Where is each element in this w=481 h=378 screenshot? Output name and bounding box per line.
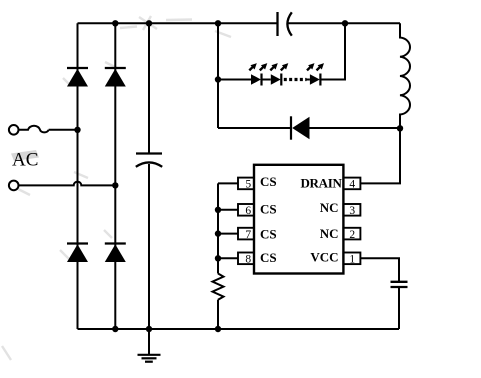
wire pin8 stub bbox=[218, 257, 238, 259]
svg-text:NC: NC bbox=[320, 226, 339, 241]
wire right bridge leg bbox=[114, 23, 116, 329]
node dot bottom rail at right leg bbox=[112, 326, 118, 332]
svg-text:5: 5 bbox=[245, 179, 251, 191]
LED LED3 bbox=[310, 74, 321, 86]
wire LED branch left vertical bbox=[217, 23, 219, 128]
capacitor C1 filter (polarized) bbox=[136, 154, 162, 167]
diode D4 lower-right bridge bbox=[105, 244, 126, 263]
wire pin1 VCC to cap bbox=[360, 258, 399, 281]
LED LED1 bbox=[251, 74, 262, 86]
node dot freewheel at inductor bbox=[397, 125, 403, 131]
svg-text:8: 8 bbox=[245, 254, 251, 266]
AC terminal lower bbox=[9, 181, 19, 191]
wire resistor to bottom rail bbox=[217, 300, 219, 329]
svg-text:1: 1 bbox=[349, 254, 355, 266]
node dot top rail at cap leg bbox=[146, 20, 152, 26]
wire dashed LED continuation bbox=[284, 78, 307, 81]
svg-text:3: 3 bbox=[349, 205, 355, 217]
svg-text:4: 4 bbox=[349, 179, 355, 191]
wire upper AC to left leg bbox=[49, 129, 78, 131]
wire bottom rail bbox=[78, 328, 400, 330]
LED arrows group 1 bbox=[249, 63, 267, 70]
wire VCC cap to bottom rail bbox=[398, 288, 400, 329]
LED arrows group 2 bbox=[270, 63, 288, 70]
pin 7 box bbox=[238, 228, 254, 240]
node dot CS pin8 bbox=[215, 255, 221, 261]
svg-text:CS: CS bbox=[260, 174, 277, 189]
wire drain from inductor node to pin 4 bbox=[360, 128, 400, 183]
wire freewheel row right bbox=[310, 127, 401, 129]
svg-text:7: 7 bbox=[245, 229, 251, 241]
svg-text:2: 2 bbox=[349, 229, 355, 241]
LED LED2 bbox=[271, 74, 282, 86]
node dot CS pin6 bbox=[215, 207, 221, 213]
wire freewheel row left bbox=[218, 127, 291, 129]
pin 4 box bbox=[343, 178, 360, 190]
wire LED row solid right bbox=[320, 23, 345, 79]
wire filter cap lower bbox=[148, 164, 150, 329]
LED arrows group 3 bbox=[307, 63, 324, 70]
svg-text:CS: CS bbox=[260, 250, 277, 265]
capacitor C3 VCC bbox=[391, 282, 408, 287]
diode D1 upper-left bridge bbox=[67, 68, 88, 87]
node dot top rail at LED return bbox=[342, 20, 348, 26]
node dot top rail at right leg bbox=[112, 20, 118, 26]
inductor L1 bbox=[400, 23, 410, 128]
wire lower AC with hop over left leg bbox=[19, 182, 116, 186]
ground bbox=[138, 355, 161, 362]
svg-text:CS: CS bbox=[260, 227, 277, 242]
wire top rail left segment bbox=[78, 22, 278, 24]
diode D2 upper-right bridge bbox=[105, 68, 126, 87]
node dot bottom rail at resistor leg bbox=[215, 326, 221, 332]
fuse squiggle bbox=[19, 126, 49, 133]
wire filter cap upper bbox=[148, 23, 150, 153]
wire ground stub bbox=[148, 329, 150, 354]
wire pin7 stub bbox=[218, 233, 238, 235]
svg-text:AC: AC bbox=[12, 150, 38, 171]
svg-text:DRAIN: DRAIN bbox=[300, 175, 342, 190]
wire LED dash to LED3 bbox=[306, 79, 310, 81]
wire CS common vertical bbox=[217, 183, 219, 273]
pin 2 box bbox=[343, 228, 360, 240]
pin 8 box bbox=[238, 253, 254, 265]
diode D3 lower-left bridge bbox=[67, 244, 88, 263]
pin 6 box bbox=[238, 204, 254, 216]
wire LED1 to LED2 bbox=[262, 79, 271, 81]
node junction upper AC bbox=[74, 127, 80, 133]
diode D5 freewheeling bbox=[291, 116, 310, 139]
pin 5 box bbox=[238, 178, 254, 190]
resistor R1 bbox=[213, 274, 224, 300]
pin 3 box bbox=[343, 204, 360, 216]
capacitor C2 series top (polarized) bbox=[278, 12, 292, 36]
pin 1 box bbox=[343, 253, 360, 265]
wire LED row solid left bbox=[218, 79, 251, 81]
node dot bottom rail at ground leg bbox=[146, 326, 152, 332]
svg-text:VCC: VCC bbox=[310, 250, 338, 265]
svg-text:NC: NC bbox=[320, 200, 339, 215]
wire top rail right segment bbox=[289, 22, 401, 24]
node junction lower AC bbox=[112, 182, 118, 188]
wire left bridge leg bbox=[77, 23, 79, 329]
label AC artifact patch bbox=[11, 150, 39, 161]
svg-text:6: 6 bbox=[245, 205, 251, 217]
node dot top rail at LED branch bbox=[215, 20, 221, 26]
IC U1 body bbox=[254, 165, 343, 274]
wire pin6 stub bbox=[218, 209, 238, 211]
AC terminal upper bbox=[9, 125, 19, 135]
svg-text:CS: CS bbox=[260, 202, 277, 217]
node dot CS pin7 bbox=[215, 230, 221, 236]
node dot LED branch bbox=[215, 76, 221, 82]
wire pin5 stub bbox=[218, 182, 238, 184]
